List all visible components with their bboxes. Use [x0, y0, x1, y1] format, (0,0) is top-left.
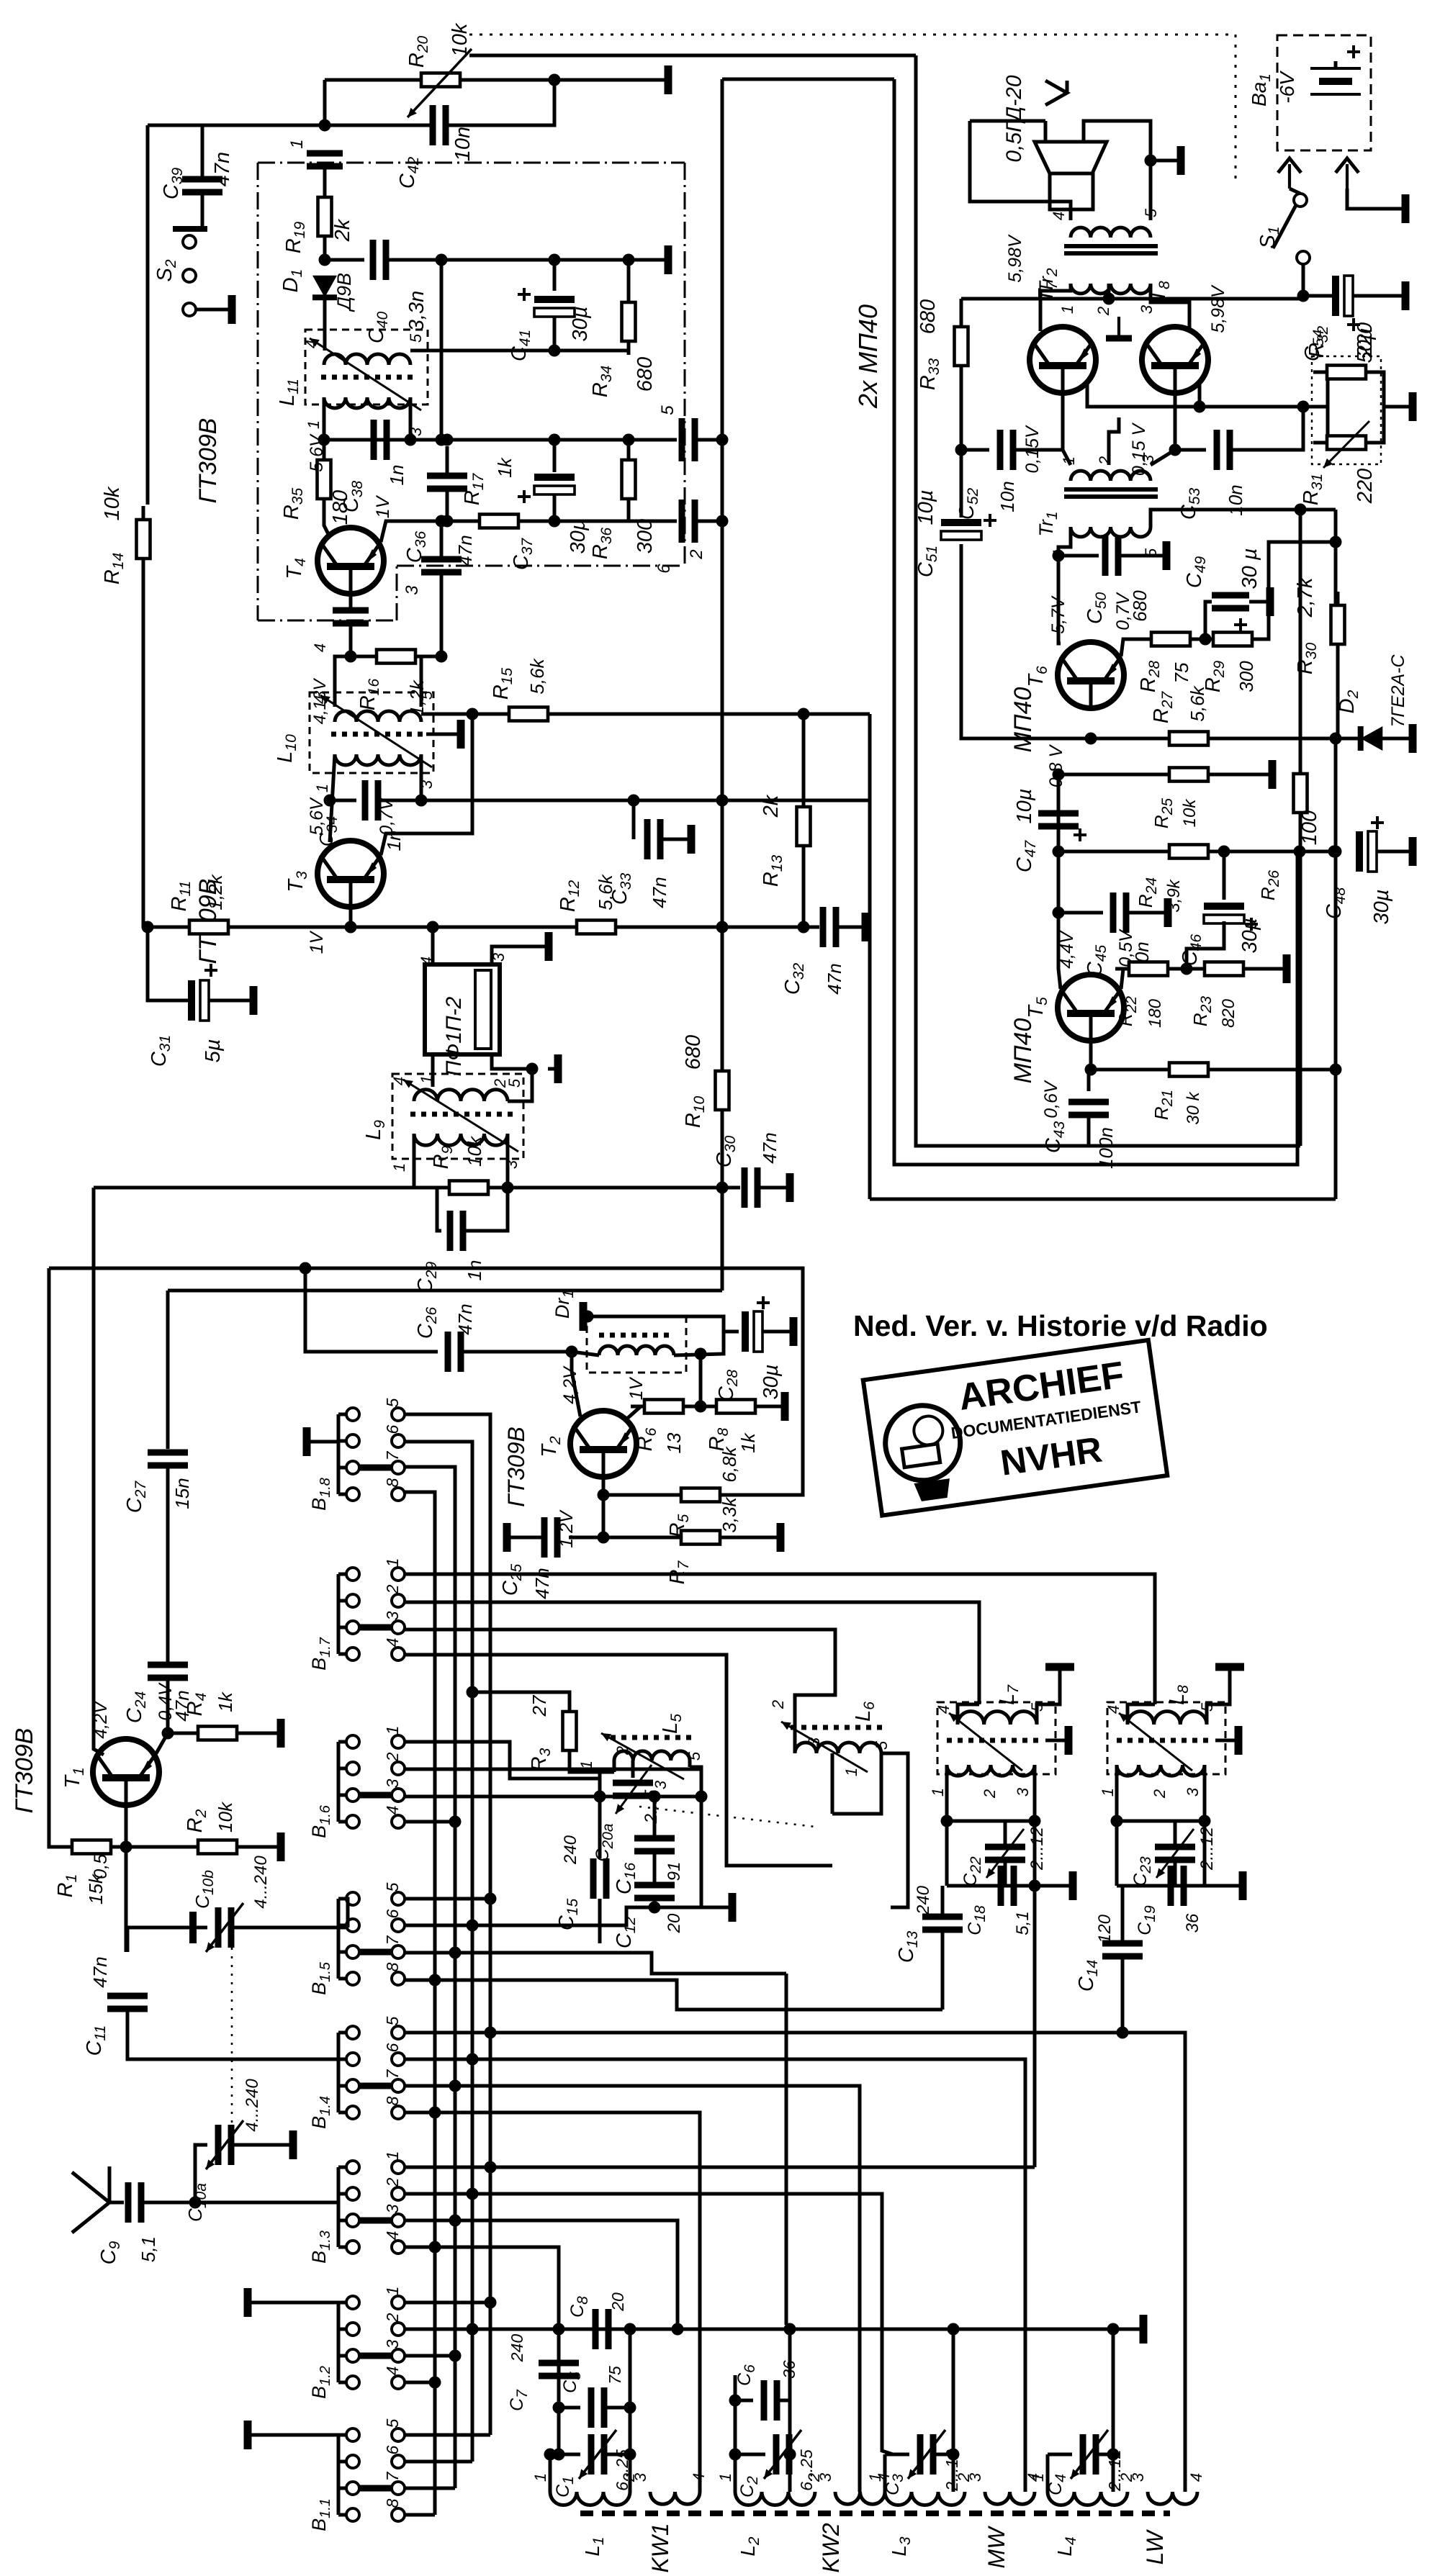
capacitor C26 — [445, 1332, 451, 1372]
junction T5 base/R21 — [1085, 1064, 1097, 1076]
capacitor C40 — [370, 240, 377, 280]
svg-text:2: 2 — [383, 1584, 402, 1594]
resistor R16 — [363, 655, 429, 659]
junction T2 collector/Dr1 — [566, 1346, 578, 1358]
feedthrough capacitor 4 — [333, 607, 369, 614]
wire C43 top — [1087, 1070, 1091, 1091]
wire C16 column — [653, 1797, 657, 1836]
dash-dot box T4 stage top — [258, 162, 685, 164]
switch 1.7 contact R3 — [392, 1621, 405, 1634]
inductor L9 bottom winding — [414, 1134, 508, 1145]
wire R33 to C51 — [960, 375, 963, 518]
resistor R15 — [495, 713, 562, 716]
svg-text:2: 2 — [1096, 456, 1114, 466]
wire B1.4-6 to L3 MW — [405, 2059, 1025, 2492]
ground L7 core — [1060, 1739, 1068, 1743]
junction loop A top — [1295, 504, 1307, 516]
svg-text:3: 3 — [1138, 304, 1156, 314]
junction C46 top — [1218, 846, 1230, 858]
wire to B1.5 bracket — [338, 1899, 348, 1928]
wire L8 pin5 to ground — [1207, 1677, 1230, 1725]
switch 1.8 contact R3 — [392, 1461, 405, 1474]
wire L10 pin1 to T3 collector — [330, 754, 335, 842]
junction C47 top — [1053, 769, 1065, 781]
svg-text:4: 4 — [302, 340, 320, 348]
ground end of C40 row — [652, 258, 668, 262]
wire C24 to T1 node — [166, 1678, 170, 1733]
wire to C2 — [735, 2453, 765, 2457]
junction pad row/L1 riser — [624, 2323, 636, 2336]
svg-text:5,1: 5,1 — [138, 2236, 159, 2262]
junction R36 top — [623, 434, 635, 446]
svg-text:1: 1 — [929, 1788, 947, 1797]
resistor R32 — [1313, 371, 1380, 374]
switch 1.8 bracket — [337, 1414, 341, 1494]
wire antenna to C9 — [109, 2201, 124, 2205]
wire L10 pin3 down — [420, 754, 423, 800]
resistor R5 — [667, 1493, 734, 1497]
wire rail to C52 — [961, 448, 989, 452]
junction C5/riser — [624, 2402, 636, 2414]
wire common pad row y3236 — [405, 2328, 1128, 2331]
svg-text:36: 36 — [780, 2360, 798, 2379]
wire loop B right/bottom — [894, 79, 1297, 1165]
ground at battery — [1390, 207, 1405, 211]
junction row A left — [594, 1791, 606, 1803]
junction bundle/B1.2-3 — [449, 2350, 462, 2362]
junction R30 rail — [1330, 536, 1342, 548]
battery connector right — [1336, 158, 1359, 173]
junction bundle/B1.2-2 — [467, 2323, 479, 2336]
wire C4 right — [1096, 2453, 1113, 2457]
junction C4 row/riser — [1107, 2449, 1120, 2461]
switch 1.7 contact R4 — [392, 1648, 405, 1660]
wire C54 to ground — [1353, 294, 1390, 298]
wire B1.7-3 to L6 — [405, 1630, 835, 1753]
resistor R12 — [563, 926, 629, 929]
junction bundle/B1.3-1 — [485, 2161, 497, 2174]
ground at C31 — [238, 999, 253, 1003]
wire T1 base down to C11 — [125, 1847, 128, 1952]
svg-text:-6V: -6V — [1276, 71, 1298, 104]
wire C22 top — [1004, 1821, 1007, 1847]
svg-text:МП40: МП40 — [1009, 687, 1037, 753]
svg-text:5µ: 5µ — [202, 1039, 225, 1063]
wire T1 base — [125, 1805, 128, 1847]
junction C50 — [1053, 550, 1065, 562]
svg-text:1V: 1V — [626, 1376, 647, 1400]
switch 1.2 contact R4 — [392, 2376, 405, 2389]
svg-text:680: 680 — [682, 1035, 705, 1070]
wire L7 pin1 down — [945, 1765, 949, 1821]
wire C14 top — [1121, 1886, 1125, 1943]
svg-text:KW2: KW2 — [818, 2523, 844, 2573]
switch 1.3 contact R4 — [392, 2241, 405, 2254]
junction C48 — [1328, 846, 1341, 858]
wire B1.1-6 stub — [405, 2460, 472, 2464]
svg-text:240: 240 — [561, 1835, 580, 1865]
wire C52 to T7 base — [1013, 448, 1063, 452]
wire C3 right — [933, 2453, 953, 2457]
switch 1.8 contact R2 — [392, 1434, 405, 1447]
svg-text:30µ: 30µ — [1370, 890, 1393, 925]
battery Ba1 cells — [1310, 67, 1361, 70]
wire D1 to L11 — [323, 298, 327, 351]
wire base row to R2 — [117, 1845, 199, 1849]
wire C14 down — [1121, 1956, 1125, 2033]
junction row A right — [696, 1791, 708, 1803]
ground at C32 — [850, 926, 865, 929]
ground at PF pin2 — [548, 1067, 558, 1071]
wire Tr2 pin1 to T7 collector — [1040, 284, 1071, 331]
svg-text:10k: 10k — [1180, 798, 1200, 828]
junction bundle/B1.4-7 — [449, 2080, 462, 2092]
wire C49 riser — [1205, 602, 1212, 639]
svg-text:2...12: 2...12 — [942, 2449, 961, 2492]
wire to C42 — [325, 124, 433, 127]
wire C23 row — [1117, 1820, 1205, 1823]
ground at C12 — [716, 1906, 732, 1910]
svg-text:3: 3 — [816, 2472, 834, 2482]
wire R4 to ground — [245, 1732, 265, 1735]
ground at R7 — [765, 1536, 780, 1540]
junction C7 column/C1 row — [553, 2449, 565, 2461]
switch S2 contact bar — [173, 226, 207, 232]
svg-text:3,3n: 3,3n — [405, 291, 428, 331]
resistor R7 — [667, 1536, 734, 1540]
wire to ground at speaker — [1151, 159, 1165, 163]
switch 1.7 contact R1 — [392, 1568, 405, 1581]
wire to C31 — [148, 927, 192, 1000]
ground at C25 — [507, 1536, 523, 1540]
inductor L4 winding a — [1048, 2492, 1128, 2505]
switch 1.3 contact R2 — [392, 2187, 405, 2200]
svg-text:0,15 V: 0,15 V — [1129, 422, 1149, 476]
capacitor C15 — [590, 1858, 597, 1899]
junction bundle/B1.3-2 — [467, 2188, 479, 2200]
wire R21 to outer loop — [1218, 1068, 1336, 1072]
switch 1.2 contact R2 — [392, 2323, 405, 2336]
switch 1.6 contact R4 — [392, 1815, 405, 1828]
wire C10b left — [193, 1926, 207, 1930]
resistor R21 — [1156, 1068, 1222, 1072]
wire to R11 — [143, 926, 228, 929]
junction outer loop/R21 — [1330, 1064, 1342, 1076]
svg-text:680: 680 — [634, 357, 657, 392]
svg-text:10k: 10k — [101, 486, 124, 520]
wire D2 to ground — [1382, 737, 1397, 741]
resistor R29 — [1200, 638, 1266, 641]
switch 1.8 closed contact — [359, 1465, 392, 1471]
resistor R36 — [627, 446, 631, 512]
junction R6/R8 riser top — [695, 1348, 707, 1360]
bar between T7 T8 — [1106, 335, 1132, 342]
wire L10 pin5 to R15 — [421, 713, 510, 716]
wire L6 pin5 column to ground row — [881, 1753, 908, 1907]
wire to D2 — [1336, 737, 1358, 741]
wire B1.8 common — [323, 1440, 338, 1444]
svg-text:3: 3 — [1129, 2472, 1147, 2482]
switch 1.7 contact L3 — [346, 1621, 359, 1634]
wire B1.5-6 to osc — [405, 1907, 654, 1925]
capacitor C49 electrolytic — [1212, 592, 1249, 599]
svg-text:2: 2 — [613, 1746, 631, 1755]
trimmer capacitor C10a — [215, 2125, 222, 2165]
svg-text:4: 4 — [311, 695, 329, 704]
svg-text:ГТ309В: ГТ309В — [11, 1728, 38, 1814]
wire C53 to emitter rail — [1230, 407, 1303, 450]
wire C48 to ground — [1377, 850, 1397, 854]
thermistor R31 — [1313, 441, 1380, 445]
switch 1.1 contact L1 — [346, 2428, 359, 2441]
wire C27 column top — [166, 1291, 170, 1449]
junction C14/LW row — [1117, 2027, 1129, 2039]
wire left edge to R1 — [49, 1268, 73, 1847]
wire cap6 to loop — [695, 520, 722, 523]
switch 1.6 contact L4 — [346, 1815, 359, 1828]
transformer Tr1 primary — [1071, 527, 1151, 537]
junction row/L2 riser — [784, 2323, 796, 2336]
junction base/y1288 — [345, 921, 357, 934]
resistor R9 — [436, 1186, 502, 1190]
wire B1.5-7 — [405, 1953, 786, 1974]
svg-text:2k: 2k — [331, 218, 354, 242]
svg-text:1: 1 — [287, 139, 307, 148]
junction L11 pin1 row — [318, 434, 330, 446]
wire L2 pin1 riser — [734, 2375, 737, 2492]
switch S2 contact 3 — [183, 303, 196, 316]
battery connector left — [1278, 158, 1301, 173]
svg-text:5,6V: 5,6V — [307, 433, 327, 472]
wire L5 pin3 stub — [688, 1761, 692, 1767]
svg-text:1: 1 — [577, 1761, 595, 1769]
wire C37 bottom — [553, 494, 557, 521]
junction loop y724 — [716, 515, 729, 528]
junction C12 bottom — [649, 1902, 661, 1914]
switch 1.4 contact R2 — [392, 2053, 405, 2066]
switch 1.1 contact R2 — [392, 2455, 405, 2468]
wire Tr1 pin2 bias — [1109, 417, 1119, 465]
resistor R14 — [142, 506, 145, 572]
svg-text:10µ: 10µ — [914, 490, 937, 525]
wire T7 base to Tr1 pin1 — [1063, 393, 1071, 465]
resistor R28 — [1138, 638, 1204, 641]
wire T6 emitter to R28 — [1121, 639, 1150, 656]
switch 1.6 closed contact — [359, 1792, 392, 1799]
junction L7 pin1/C22 row — [941, 1815, 953, 1827]
junction ground row — [582, 1311, 594, 1323]
wire riser to Dr1 row — [699, 1354, 703, 1406]
switch 1.4 contact L4 — [346, 2106, 359, 2119]
capacitor C39 — [182, 176, 222, 183]
svg-text:820: 820 — [1219, 998, 1238, 1028]
junction C16 top — [649, 1791, 661, 1803]
svg-text:30µ: 30µ — [569, 307, 592, 342]
wire right C19 row — [1203, 1821, 1207, 1886]
svg-text:680: 680 — [917, 299, 940, 334]
inductor L7 top winding — [958, 1712, 1037, 1725]
capacitor C29 — [447, 1211, 454, 1251]
capacitor C9 — [125, 2182, 132, 2223]
ground at C30 — [774, 1186, 790, 1190]
wire R3 top to bundle — [472, 1692, 570, 1698]
resistor R30 — [1336, 592, 1340, 658]
diode D2 — [1361, 726, 1383, 751]
transistor T5 — [1058, 975, 1124, 1041]
wire C7 column — [557, 2329, 561, 2454]
capacitor C30 — [742, 1167, 748, 1208]
wire R9 to C30 — [498, 1186, 740, 1190]
wire Tr2 pin3 to T8 collector — [1151, 284, 1189, 333]
ground of pad row — [1128, 2328, 1143, 2331]
svg-text:1: 1 — [842, 1768, 860, 1776]
junction T1 collector/R4 — [162, 1727, 174, 1740]
svg-text:3: 3 — [1139, 454, 1157, 464]
wire C36 bottom lead — [446, 489, 449, 521]
junction T6 base rail — [1085, 733, 1097, 745]
ground at R25 — [1256, 773, 1272, 777]
svg-text:ГТ309В: ГТ309В — [503, 1427, 529, 1507]
svg-text:1: 1 — [383, 1558, 402, 1568]
wire outer loop bottom — [870, 1198, 1336, 1201]
wire C5 right — [604, 2406, 630, 2410]
resistor R17 — [466, 520, 532, 523]
svg-text:1: 1 — [1029, 2473, 1047, 2482]
svg-text:1n: 1n — [464, 1260, 485, 1281]
wire B1.2-3 stub — [405, 2354, 455, 2358]
resistor R8 — [703, 1405, 769, 1409]
capacitor C52 — [997, 430, 1004, 470]
inductor L8 top winding — [1128, 1712, 1207, 1725]
junction R19/C40 — [319, 254, 331, 266]
switch 1.5 contact L4 — [346, 1972, 359, 1985]
resistor R13 — [802, 793, 806, 859]
switch 1.1 contact R4 — [392, 2508, 405, 2521]
wire to C34 — [330, 799, 356, 803]
svg-text:4: 4 — [383, 2231, 402, 2241]
junction L10 pin3 — [415, 795, 428, 807]
dash-dot box T4 stage bottom — [258, 620, 397, 622]
wire B1.1-8 stub — [405, 2513, 435, 2517]
trimmer capacitor C22 — [985, 1844, 1025, 1850]
wire B1.1 common — [259, 2433, 338, 2437]
wire B1.7-2 to L7 — [405, 1602, 979, 1704]
ground right of R20 — [652, 78, 668, 82]
svg-text:4: 4 — [690, 2473, 708, 2482]
capacitor C24 — [148, 1662, 188, 1668]
wire R2 to ground — [245, 1845, 265, 1849]
ground at B1.1 — [248, 2433, 259, 2437]
wire driver collector rail y1026 — [961, 544, 1336, 738]
wire C47 column — [1057, 774, 1061, 851]
svg-text:180: 180 — [1146, 998, 1165, 1028]
wire base bias row y1076 — [1058, 773, 1170, 777]
junction PF pin4 — [427, 921, 439, 934]
core L7 — [947, 1738, 1044, 1743]
transformer Tr1 core — [1064, 487, 1158, 492]
svg-text:MW: MW — [984, 2526, 1009, 2569]
svg-text:4: 4 — [383, 1638, 402, 1648]
svg-text:0,6V: 0,6V — [1041, 1080, 1061, 1118]
svg-text:5,98V: 5,98V — [1208, 284, 1228, 333]
wire C11 top to C10b — [127, 1928, 193, 1952]
wire R16 right — [425, 655, 441, 659]
wire R36 top lead — [627, 440, 631, 460]
gang dotted link C10b-C10a — [231, 1948, 233, 2125]
inductor L8 bottom winding — [1117, 1765, 1205, 1776]
wire node to R4 — [168, 1732, 199, 1735]
switch 1.6 contact L3 — [346, 1789, 359, 1802]
ground at PF pin3 — [533, 945, 549, 949]
svg-text:6: 6 — [383, 1424, 402, 1434]
wire B1.8-8 bundle — [405, 1492, 435, 2515]
svg-text:47n: 47n — [454, 1303, 476, 1334]
svg-text:2: 2 — [687, 549, 706, 559]
capacitor C12 — [634, 1882, 675, 1889]
svg-text:1: 1 — [866, 2473, 884, 2482]
wire R16 to L10 pin5 — [421, 656, 425, 707]
wire C22 row — [947, 1820, 1035, 1823]
wire R12 east — [625, 926, 819, 929]
junction R3/bundle — [467, 1686, 479, 1699]
ground at C28 — [778, 1330, 793, 1334]
svg-text:75: 75 — [606, 2366, 624, 2385]
svg-text:5: 5 — [685, 1751, 703, 1761]
switch 1.3 contact L1 — [346, 2161, 359, 2174]
wire cap3 top — [440, 521, 444, 559]
junction bundle/B1.4-6 — [467, 2053, 479, 2066]
wire B1.8-6 bundle — [405, 1442, 472, 2462]
svg-text:3: 3 — [402, 585, 422, 595]
wire R3 to L5 pin1 — [570, 1764, 614, 1772]
svg-text:100n: 100n — [1095, 1127, 1117, 1169]
svg-text:3,3k: 3,3k — [719, 1496, 740, 1532]
wire L7 pin4 — [958, 1704, 979, 1725]
junction base/R16 — [345, 651, 357, 663]
svg-text:2...12: 2...12 — [1105, 2449, 1124, 2492]
dotted box R31 R32 — [1312, 356, 1381, 464]
switch 1.3 closed contact — [359, 2218, 392, 2224]
svg-text:10k: 10k — [464, 1135, 485, 1167]
junction loop/y1112 — [716, 795, 729, 807]
wire C19 row — [1117, 1884, 1205, 1888]
chassis dashed line — [580, 2511, 1170, 2516]
ground at C10a — [277, 2143, 293, 2147]
wire C10b to B1.5 — [231, 1926, 348, 1930]
junction L8 pin3 — [1199, 1815, 1211, 1827]
svg-text:4: 4 — [311, 643, 329, 652]
capacitor C32 — [820, 907, 827, 947]
wire C13 top — [941, 1886, 945, 1917]
junction bundle/B1.5 — [467, 1920, 479, 1932]
switch 1.7 contact L2 — [346, 1594, 359, 1607]
resistor R2 — [184, 1845, 251, 1849]
ground at C54 — [1390, 294, 1405, 298]
switch 1.5 contact R1 — [392, 1892, 405, 1905]
ground at L7 pin5 — [1058, 1667, 1062, 1677]
wire B1.2-4 stub — [405, 2381, 435, 2385]
switch 1.5 bracket — [337, 1899, 341, 1979]
resistor R6 — [631, 1405, 697, 1409]
wire PF pin1 to L9 — [431, 1054, 435, 1087]
wire L11 pin1 down — [323, 397, 326, 440]
svg-text:2: 2 — [383, 1752, 402, 1762]
svg-text:3: 3 — [383, 1779, 402, 1788]
switch 1.2 contact R1 — [392, 2296, 405, 2309]
wire C49 to ground — [1249, 600, 1261, 604]
svg-text:2: 2 — [1151, 1789, 1169, 1799]
wire L8 core ground — [1215, 1739, 1230, 1743]
